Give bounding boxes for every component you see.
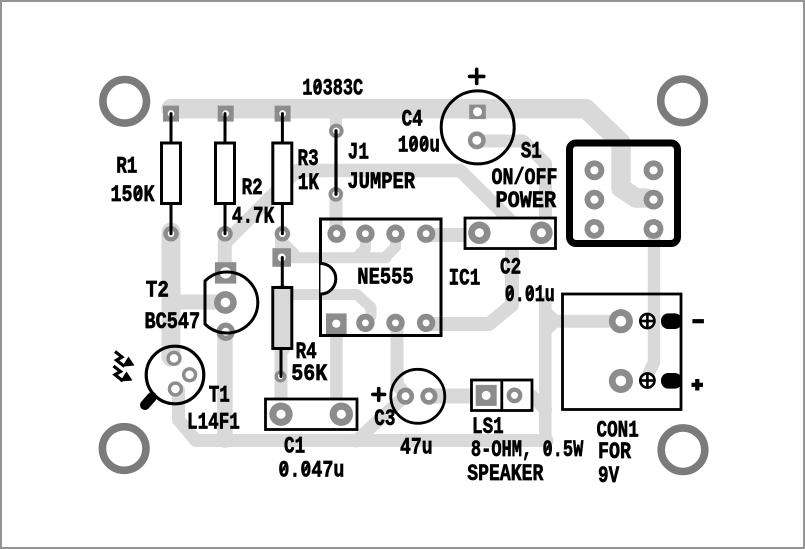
svg-text:56K: 56K	[291, 361, 328, 388]
svg-text:JUMPER: JUMPER	[347, 169, 415, 196]
svg-text:S1: S1	[521, 139, 542, 165]
svg-text:NE555: NE555	[357, 265, 413, 292]
svg-text:T2: T2	[146, 278, 169, 304]
svg-text:4.7K: 4.7K	[232, 204, 275, 230]
svg-text:L14F1: L14F1	[187, 410, 240, 436]
svg-text:9V: 9V	[598, 464, 620, 490]
svg-text:SPEAKER: SPEAKER	[467, 462, 543, 488]
svg-text:R2: R2	[242, 176, 263, 202]
svg-text:C2: C2	[500, 255, 521, 281]
svg-text:C4: C4	[402, 107, 423, 133]
svg-text:R1: R1	[116, 154, 137, 180]
svg-text:R3: R3	[298, 147, 319, 173]
svg-text:47u: 47u	[400, 436, 433, 462]
svg-text:IC1: IC1	[449, 267, 481, 293]
svg-text:0.047u: 0.047u	[278, 458, 344, 485]
svg-text:C1: C1	[284, 434, 305, 460]
svg-text:0.01u: 0.01u	[505, 283, 555, 310]
svg-text:8-OHM, 0.5W: 8-OHM, 0.5W	[471, 438, 584, 464]
svg-text:100u: 100u	[398, 133, 440, 159]
svg-text:10383C: 10383C	[302, 76, 363, 102]
svg-text:POWER: POWER	[496, 188, 557, 215]
svg-text:FOR: FOR	[598, 439, 631, 466]
svg-text:T1: T1	[209, 383, 230, 409]
svg-text:1K: 1K	[298, 171, 320, 197]
svg-text:150K: 150K	[111, 182, 155, 209]
svg-text:C3: C3	[374, 407, 395, 433]
svg-text:J1: J1	[348, 140, 369, 166]
svg-text:BC547: BC547	[145, 309, 201, 336]
